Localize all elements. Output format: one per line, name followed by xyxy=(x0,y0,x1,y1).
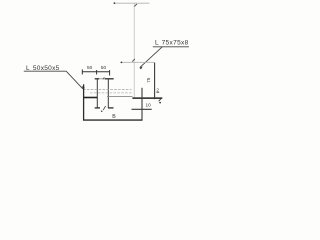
hidden dashed line upper xyxy=(83,88,132,90)
dot below slash xyxy=(159,102,161,104)
node: dot at left end of top line xyxy=(114,2,116,4)
dimension line 50/50 xyxy=(82,65,110,76)
svg-text:B: B xyxy=(112,114,116,120)
extension vertical for 10 dim xyxy=(141,88,143,121)
tick at top junction xyxy=(134,4,137,6)
node: dot at left end of second line xyxy=(121,62,123,64)
left member: thick horizontal xyxy=(83,97,97,99)
svg-text:75: 75 xyxy=(146,77,151,83)
plate: bottom cap xyxy=(95,106,114,112)
svg-text:50: 50 xyxy=(87,65,93,70)
tick at second junction xyxy=(132,59,135,62)
angle: thick horizontal leg xyxy=(132,97,162,99)
angle: vertical leg xyxy=(154,63,156,100)
text 2 with dash xyxy=(156,87,159,92)
svg-text:50: 50 xyxy=(101,65,107,70)
bottom dimension line B xyxy=(83,119,142,121)
svg-text:L 75x75x8: L 75x75x8 xyxy=(155,40,189,47)
wire: vertical centerline xyxy=(133,3,135,98)
hidden dashed line lower xyxy=(90,92,132,94)
gray line right of plate xyxy=(107,95,133,97)
wire: top horizontal light line xyxy=(114,2,150,4)
plate: left edge xyxy=(96,79,98,108)
wire: second horizontal light line xyxy=(121,61,154,63)
horizontal line of 10 dim xyxy=(132,108,152,110)
label L 75x75x8 xyxy=(139,40,189,70)
plate: right edge xyxy=(107,79,109,108)
label L 50x50x5 xyxy=(24,65,85,89)
svg-text:2: 2 xyxy=(156,87,159,92)
slash tick at angle leg end xyxy=(159,99,161,101)
plate: top cap xyxy=(95,77,114,79)
svg-text:10: 10 xyxy=(146,102,152,107)
left member: vertical edge xyxy=(83,84,85,120)
